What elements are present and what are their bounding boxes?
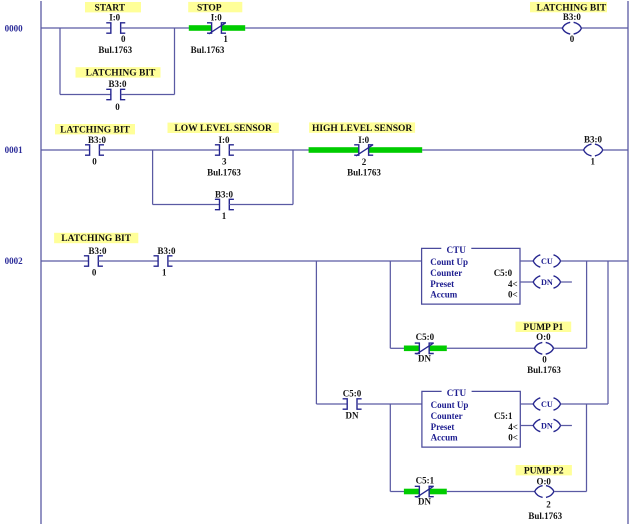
svg-text:0: 0 [92, 156, 97, 166]
address C5:0 (lower branch contact) [343, 389, 362, 399]
svg-text:CU: CU [541, 257, 553, 266]
svg-text:C5:1: C5:1 [416, 476, 435, 486]
wire rung1: branch to HIGH LEVEL SENSOR [229, 149, 309, 151]
address C5:1 (P2 contact) [416, 476, 435, 486]
contact C5:1/DN XIO (PUMP P2 branch) [415, 486, 434, 497]
svg-text:I:0: I:0 [358, 135, 369, 145]
power-flow green bar left of C5:0/DN [404, 346, 419, 352]
svg-text:Count Up: Count Up [431, 400, 469, 410]
svg-text:0<: 0< [508, 433, 518, 443]
address B3:0 (rung2 second contact) [158, 246, 177, 256]
wire rung2: contacts to CTU C5:0 [168, 260, 422, 262]
text Preset (CTU C5:1) [431, 422, 455, 432]
wire lower branch: CU to rejoin vertical [561, 403, 608, 405]
wire: DN stub (CTU C5:0) [561, 281, 572, 283]
contact LATCHING BIT B3:0/0 XIC (rung1) [85, 145, 104, 155]
svg-text:4<: 4< [508, 279, 518, 289]
svg-text:B3:0: B3:0 [584, 134, 603, 144]
bit DN (lower branch contact) [346, 411, 359, 421]
wire P2 branch: coil to rejoin vertical [554, 491, 587, 493]
wire P2 branch: vertical drop to contact [390, 491, 404, 493]
counter CTU C5:0 box [422, 245, 520, 304]
text Count Up (CTU C5:0) [430, 257, 468, 267]
left power rail [40, 1, 42, 524]
svg-text:CTU: CTU [447, 388, 467, 398]
svg-text:O:0: O:0 [536, 332, 551, 342]
address O:0 (PUMP P2) [536, 476, 551, 486]
output DN (CTU C5:0) [533, 276, 560, 288]
value Bul.1763 (LOW LEVEL SENSOR) [207, 167, 241, 177]
power-flow green bar right of C5:1/DN [429, 489, 447, 495]
right power rail [627, 1, 629, 524]
svg-text:Count Up: Count Up [430, 257, 468, 267]
svg-text:C5:0: C5:0 [416, 332, 435, 342]
svg-text:Counter: Counter [431, 411, 463, 421]
label LATCHING BIT (rung2) [54, 233, 138, 244]
branch wire: bottom left segment (rung1) [153, 204, 220, 206]
svg-text:C5:1: C5:1 [494, 411, 513, 421]
svg-text:CTU: CTU [446, 245, 466, 255]
text Preset (CTU C5:0) [430, 279, 454, 289]
branch wire: right vertical x=293 [292, 150, 294, 205]
svg-text:LATCHING BIT: LATCHING BIT [86, 69, 156, 79]
wire P1 branch: coil to rejoin vertical [554, 347, 587, 349]
counter CTU C5:1 box [422, 388, 520, 447]
value Bul.1763 (HIGH LEVEL SENSOR) [347, 167, 381, 177]
text Count Up (CTU C5:1) [431, 400, 469, 410]
wire rung2: between contacts [98, 260, 158, 262]
svg-text:Counter: Counter [430, 268, 462, 278]
wire P1 branch: vertical drop to contact [390, 347, 404, 349]
svg-text:0001: 0001 [5, 145, 24, 155]
svg-text:1: 1 [591, 157, 596, 167]
svg-text:Bul.1763: Bul.1763 [207, 167, 241, 177]
wire CTU1 to CU output [520, 260, 533, 262]
power-flow green bar right of HIGH LEVEL SENSOR [369, 147, 423, 153]
wire: DN stub (CTU C5:1) [561, 425, 572, 427]
branch wire: right vertical x=174.5 [174, 28, 176, 95]
junction vertical: lower branch rejoin x=608 [607, 261, 609, 404]
svg-text:2: 2 [546, 500, 551, 510]
wire P2 branch: contact to coil [447, 491, 535, 493]
text Accum (CTU C5:1) [431, 433, 458, 443]
address B3:0 (rung0 coil) [563, 12, 582, 22]
svg-text:I:0: I:0 [109, 13, 120, 23]
value C5:1 (CTU) [494, 411, 513, 421]
label LATCHING BIT (rung1) [55, 124, 135, 135]
wire CTU2 to CU output [520, 403, 533, 405]
junction vertical: P2 branch rejoin x=586.5 [586, 404, 588, 492]
wire rung0: coil to right rail [582, 27, 629, 29]
address B3:0 (rung1 branch contact) [215, 189, 234, 199]
bit 1 (rung2 second contact) [162, 268, 167, 278]
address I:0 (START) [109, 13, 120, 23]
svg-text:DN: DN [541, 422, 553, 431]
svg-text:PUMP P2: PUMP P2 [524, 466, 564, 476]
label LOW LEVEL SENSOR [168, 123, 279, 134]
svg-text:0<: 0< [508, 290, 518, 300]
bit 1 (rung1 branch contact) [222, 211, 227, 221]
wire rung1: contact to branch [99, 149, 219, 151]
address B3:0 (rung1 first contact) [88, 135, 107, 145]
svg-text:C5:0: C5:0 [494, 268, 513, 278]
svg-text:DN: DN [418, 354, 431, 364]
branch wire: bottom left segment [60, 94, 111, 96]
rung number 0002 [5, 256, 24, 266]
contact LATCHING BIT B3:0/0 XIC (branch) [106, 89, 125, 99]
label LATCHING BIT (rung0 coil) [530, 2, 607, 13]
branch wire: bottom right segment [121, 94, 175, 96]
wire rung2: CU to right rail [561, 260, 628, 262]
svg-text:1: 1 [162, 268, 167, 278]
svg-text:Bul.1763: Bul.1763 [347, 167, 381, 177]
branch wire: left vertical x=60 [59, 28, 61, 95]
svg-text:O:0: O:0 [536, 476, 551, 486]
wire rung1: HIGH LEVEL SENSOR to coil [422, 149, 583, 151]
svg-text:Bul.1763: Bul.1763 [528, 511, 562, 521]
rung number 0000 [5, 23, 24, 33]
coil PUMP P1 O:0/0 OTE [534, 342, 553, 354]
label STOP [188, 2, 242, 13]
address I:0 (STOP) [211, 13, 222, 23]
label PUMP P1 [516, 322, 572, 333]
power-flow green bar left of HIGH LEVEL SENSOR [309, 147, 359, 153]
address B3:0 (rung1 coil) [584, 134, 603, 144]
svg-text:4<: 4< [508, 422, 518, 432]
value Bul.1763 (START) [98, 45, 132, 55]
svg-text:Preset: Preset [430, 279, 454, 289]
contact B3:0/0 XIC (rung2) [84, 256, 103, 266]
wire lower branch: contact to CTU C5:1 [357, 403, 422, 405]
text Counter (CTU C5:1) [431, 411, 463, 421]
text Counter (CTU C5:0) [430, 268, 462, 278]
text Accum (CTU C5:0) [430, 290, 457, 300]
bit 3 (LOW LEVEL SENSOR) [222, 156, 227, 166]
address I:0 (HIGH LEVEL SENSOR) [358, 135, 369, 145]
svg-text:B3:0: B3:0 [215, 189, 234, 199]
contact STOP I:0/1 XIO [207, 23, 226, 34]
svg-text:B3:0: B3:0 [88, 135, 107, 145]
bit 0 (rung0 coil) [570, 34, 575, 44]
value C5:0 (CTU) [494, 268, 513, 278]
svg-text:C5:0: C5:0 [343, 389, 362, 399]
bit 0 (PUMP P1) [542, 355, 547, 365]
wire rung0: left rail to START contact [41, 27, 111, 29]
bit 2 (PUMP P2) [546, 500, 551, 510]
wire rung1: left rail to first contact [41, 149, 90, 151]
svg-text:B3:0: B3:0 [158, 246, 177, 256]
svg-text:CU: CU [541, 400, 553, 409]
rung number 0001 [5, 145, 24, 155]
coil PUMP P2 O:0/2 OTE [535, 486, 554, 498]
svg-text:1: 1 [223, 34, 228, 44]
value Bul.1763 (PUMP P1) [527, 365, 561, 375]
junction vertical: P1 branch rejoin x=586.6 [586, 261, 588, 348]
label HIGH LEVEL SENSOR [309, 122, 415, 133]
svg-text:I:0: I:0 [211, 13, 222, 23]
svg-text:1: 1 [222, 211, 227, 221]
address O:0 (PUMP P1) [536, 332, 551, 342]
branch wire: bottom right segment (rung1) [229, 204, 293, 206]
bit 1 (rung1 coil) [591, 157, 596, 167]
contact C5:0/DN XIO (PUMP P1 branch) [415, 343, 434, 354]
junction vertical to lower CTU branch x=316.4 [315, 261, 317, 404]
wire rung2: left rail to first contact [41, 260, 89, 262]
wire CTU1 to DN output [520, 281, 533, 283]
svg-text:LOW LEVEL SENSOR: LOW LEVEL SENSOR [174, 124, 272, 134]
svg-text:Accum: Accum [430, 290, 457, 300]
value 0&lt; (CTU C5:1 accum) [508, 433, 518, 443]
wire P1 branch: contact to coil [447, 347, 535, 349]
contact B3:0/1 XIC (rung1 branch) [215, 199, 234, 209]
bit DN (P2 contact) [418, 497, 431, 507]
bit 0 (START) [121, 34, 126, 44]
value 0&lt; (CTU C5:0 accum) [508, 290, 518, 300]
junction vertical to PUMP P2 branch x=390.3 [389, 404, 391, 492]
svg-text:I:0: I:0 [219, 135, 230, 145]
wire lower branch: to C5:0/DN contact [316, 403, 347, 405]
output DN (CTU C5:1) [533, 419, 560, 431]
value 4&lt; (CTU C5:1 preset) [508, 422, 518, 432]
wire rung0: STOP to coil [245, 27, 562, 29]
svg-text:Accum: Accum [431, 433, 458, 443]
address I:0 (LOW LEVEL SENSOR) [219, 135, 230, 145]
svg-text:DN: DN [418, 497, 431, 507]
svg-text:0: 0 [92, 268, 97, 278]
value 4&lt; (CTU C5:0 preset) [508, 279, 518, 289]
wire rung1: coil to right rail [603, 149, 628, 151]
address C5:0 (P1 contact) [416, 332, 435, 342]
bit 0 (rung2 first contact) [92, 268, 97, 278]
power-flow green bar left of STOP [189, 25, 212, 31]
wire rung0: START to STOP [121, 27, 212, 29]
power-flow green bar left of C5:1/DN [404, 489, 419, 495]
svg-text:0: 0 [570, 34, 575, 44]
bit 0 (rung1 first contact) [92, 156, 97, 166]
svg-text:B3:0: B3:0 [563, 12, 582, 22]
contact HIGH LEVEL SENSOR I:0/2 XIO [354, 145, 373, 156]
bit 2 (HIGH LEVEL SENSOR) [362, 157, 367, 167]
contact C5:0/DN XIC (lower branch) [343, 399, 362, 409]
svg-text:DN: DN [541, 278, 553, 287]
label LATCHING BIT (rung0 branch) [76, 67, 161, 78]
svg-text:Bul.1763: Bul.1763 [98, 45, 132, 55]
coil B3:0/1 OTE (rung1) [584, 144, 603, 156]
power-flow green bar right of C5:0/DN [429, 346, 447, 352]
coil LATCHING BIT B3:0/0 OTE [562, 22, 581, 34]
svg-text:3: 3 [222, 156, 227, 166]
bit 0 (branch contact) [115, 102, 120, 112]
svg-text:B3:0: B3:0 [89, 246, 108, 256]
power-flow green bar right of STOP [221, 25, 245, 31]
contact B3:0/1 XIC (rung2) [154, 256, 173, 266]
svg-text:Bul.1763: Bul.1763 [191, 45, 225, 55]
output CU (CTU C5:0) [533, 255, 560, 267]
bit 1 (STOP) [223, 34, 228, 44]
bit DN (P1 contact) [418, 354, 431, 364]
output CU (CTU C5:1) [533, 398, 560, 410]
svg-text:LATCHING BIT: LATCHING BIT [61, 234, 131, 244]
svg-text:2: 2 [362, 157, 367, 167]
wire CTU2 to DN output [520, 425, 533, 427]
junction vertical to PUMP P1 branch x=390.3 [389, 261, 391, 348]
contact LOW LEVEL SENSOR I:0/3 XIC [215, 145, 234, 155]
contact START I:0/0 XIC [106, 23, 125, 33]
svg-text:B3:0: B3:0 [109, 79, 128, 89]
svg-text:Preset: Preset [431, 422, 455, 432]
svg-text:Bul.1763: Bul.1763 [527, 365, 561, 375]
value Bul.1763 (STOP) [191, 45, 225, 55]
svg-text:0: 0 [121, 34, 126, 44]
svg-text:0000: 0000 [5, 23, 24, 33]
value Bul.1763 (PUMP P2) [528, 511, 562, 521]
branch wire: left vertical x=152.6 [152, 150, 154, 205]
svg-text:DN: DN [346, 411, 359, 421]
svg-text:0: 0 [542, 355, 547, 365]
svg-text:LATCHING BIT: LATCHING BIT [60, 125, 130, 135]
svg-text:HIGH LEVEL SENSOR: HIGH LEVEL SENSOR [312, 124, 412, 134]
address B3:0 (rung2 first contact) [89, 246, 108, 256]
label START [85, 2, 141, 13]
svg-text:0: 0 [115, 102, 120, 112]
label PUMP P2 [516, 465, 572, 476]
svg-text:0002: 0002 [5, 256, 24, 266]
address B3:0 (branch contact) [109, 79, 128, 89]
